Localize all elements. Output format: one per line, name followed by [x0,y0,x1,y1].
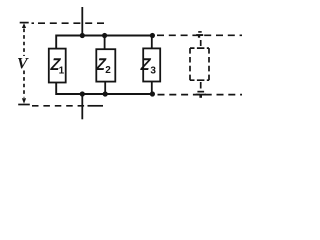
voltage arrow V bottom bar [18,104,30,106]
wire bottom terminal lead [81,94,83,119]
voltage arrow dashed line upper segment [23,29,25,57]
junction dot top rail at lead [80,33,85,38]
label Z3 [139,56,156,76]
dashed boundary top-left [32,22,108,24]
svg-text:3: 3 [150,66,156,77]
dashed stub bottom of dashed box [200,82,202,89]
dashed rail continuation bottom-right [158,94,244,96]
voltage arrow dashed line lower segment [23,71,25,98]
label Z1 [49,56,65,76]
wire bottom rail with Z1 stub [56,82,152,94]
junction dot bottom rail at lead [80,91,85,96]
junction dot bottom rail at Z3 [150,91,155,96]
wire Z2 bottom stub [104,82,106,95]
dashed future impedance box right edge [208,48,210,80]
wire top terminal lead [81,7,83,36]
junction dot bottom rail at Z2 [103,91,108,96]
wire Z3 bottom stub [151,81,153,94]
connector symbol top (dash, bar, tick) [196,31,203,38]
voltage arrow bottom arrowhead [22,98,26,103]
impedance box Z1 [49,49,66,83]
dashed future impedance box left edge [189,48,191,80]
dashed future impedance box bottom edge [190,79,209,81]
label Z2 [95,56,112,76]
wire top rail with Z1 stub [56,36,152,49]
dashed future impedance box top edge [190,47,209,49]
dashed boundary bottom-left [32,105,88,107]
junction dot top rail at Z3 [150,33,155,38]
svg-text:2: 2 [105,65,111,76]
impedance box Z3 [143,48,160,81]
dashed rail continuation top-right [157,34,243,36]
svg-text:1: 1 [59,65,65,76]
voltage arrow V top bar [20,22,29,24]
connector symbol bottom (dash, bar, tick) [196,91,206,98]
svg-text:V: V [17,56,29,73]
wire Z2 top stub [104,36,106,50]
dashed stub top of dashed box [200,40,202,46]
impedance box Z2 [96,49,115,81]
junction dot top rail at Z2 [102,33,107,38]
wire Z3 top stub [151,36,153,49]
voltage arrow V top arrowhead [22,23,26,28]
